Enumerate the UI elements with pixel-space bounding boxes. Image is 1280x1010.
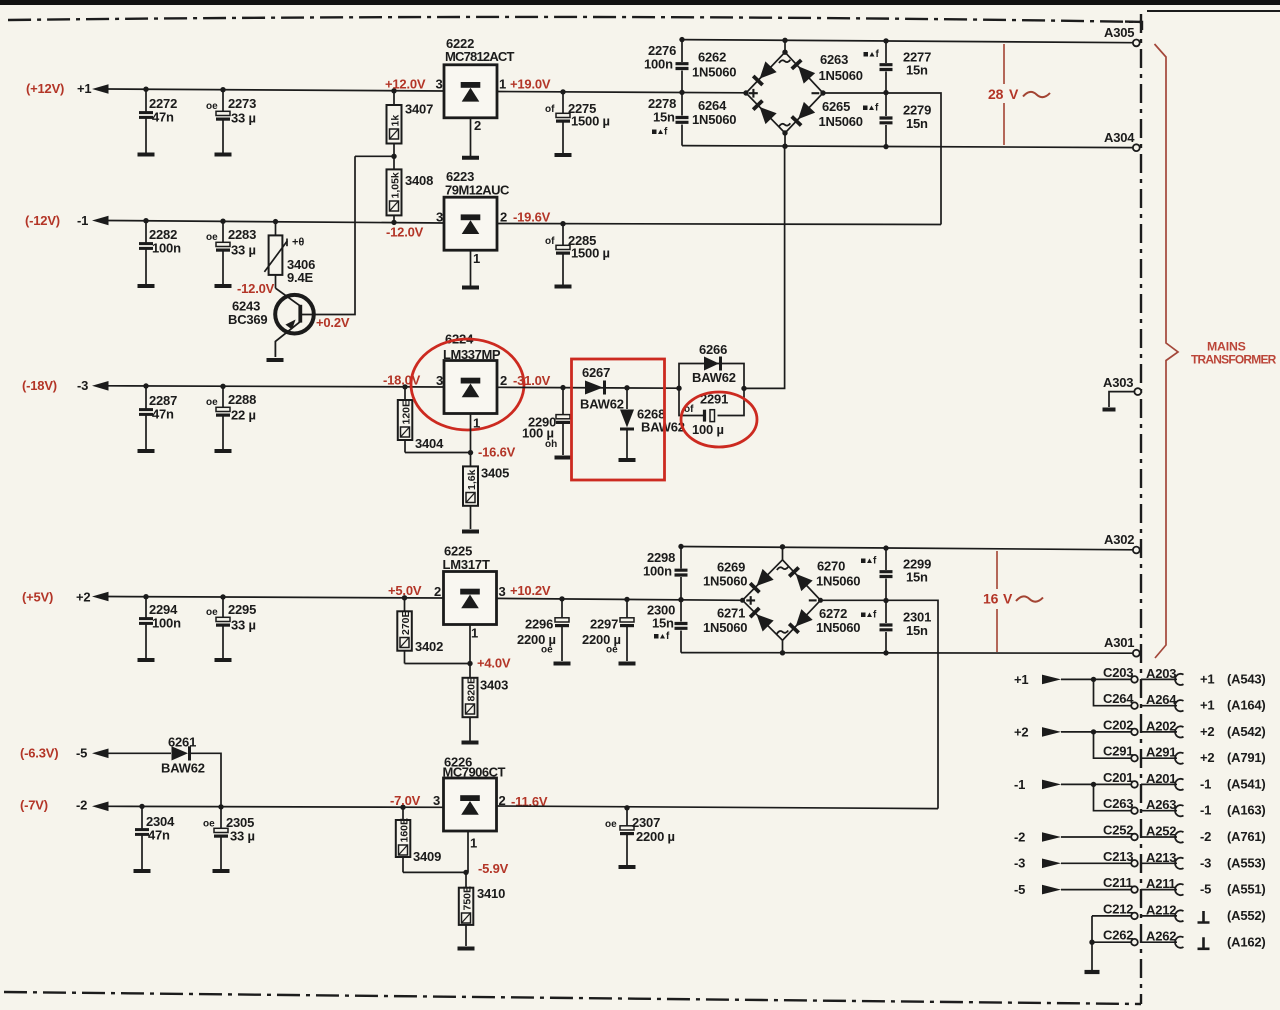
- svg-text:1k: 1k: [390, 115, 402, 127]
- svg-text:C213: C213: [1103, 849, 1133, 864]
- minus sign bridge1: [812, 92, 820, 94]
- node dot C2272: [143, 87, 148, 92]
- wire collector vertical: [301, 156, 355, 314]
- row C263/A263 -1: [1094, 784, 1266, 817]
- ground cap2307: [619, 866, 636, 868]
- svg-text:3410: 3410: [477, 886, 505, 901]
- node dot C2295: [220, 594, 225, 599]
- wire diode to corner and down: [190, 753, 222, 807]
- svg-text:C202: C202: [1103, 718, 1133, 733]
- terminal A301: [1104, 635, 1140, 657]
- svg-text:BAW62: BAW62: [580, 397, 624, 412]
- svg-text:-7.0V: -7.0V: [390, 793, 421, 808]
- node dot C2273: [220, 87, 225, 92]
- svg-text:100n: 100n: [152, 616, 181, 631]
- arrow -5: [92, 749, 109, 759]
- node dot jog/3405: [468, 450, 473, 455]
- node dot R3404 top: [402, 384, 407, 389]
- svg-text:3403: 3403: [480, 678, 508, 693]
- capacitor 2297 2200u: [582, 599, 634, 661]
- capacitor 2287 47n: [139, 386, 177, 449]
- net label (+5V): [22, 590, 53, 605]
- svg-text:820E: 820E: [466, 677, 478, 702]
- svg-text:270E: 270E: [400, 610, 412, 635]
- svg-text:1N5060: 1N5060: [816, 620, 860, 635]
- svg-text:oe: oe: [206, 101, 218, 112]
- svg-text:3404: 3404: [415, 436, 444, 451]
- node dot C2307: [624, 805, 629, 810]
- svg-text:+1: +1: [1200, 698, 1214, 713]
- svg-text:47n: 47n: [152, 407, 174, 422]
- svg-text:C201: C201: [1103, 770, 1133, 785]
- svg-text:1N5060: 1N5060: [703, 574, 747, 589]
- svg-text:1N5060: 1N5060: [692, 112, 736, 127]
- node dot C2282: [143, 218, 148, 223]
- row C211/A211 -5: [1014, 875, 1266, 897]
- resistor 3409 160E: [396, 807, 441, 872]
- svg-text:6261: 6261: [168, 735, 196, 750]
- capacitor 2275 1500u: [545, 92, 610, 153]
- row C202/A202 +2: [1014, 718, 1266, 740]
- node dot bridge1 right: [820, 90, 825, 95]
- ground cap2272: [138, 154, 155, 156]
- svg-text:-2: -2: [76, 798, 87, 813]
- svg-text:3: 3: [433, 793, 440, 808]
- capacitor 2290 100u: [522, 388, 570, 455]
- arrow +2: [92, 592, 109, 602]
- node -2: [76, 798, 87, 813]
- node dot C2285: [560, 221, 565, 226]
- svg-text:of: of: [545, 236, 555, 247]
- svg-text:(A553): (A553): [1227, 855, 1266, 870]
- svg-text:15n: 15n: [653, 110, 675, 125]
- node dot 2277/2279 mid: [883, 90, 888, 95]
- svg-text:A291: A291: [1146, 745, 1176, 760]
- svg-text:2307: 2307: [632, 815, 660, 830]
- node dot C2296: [559, 596, 564, 601]
- node dot 2277 top: [883, 38, 888, 43]
- svg-text:(A163): (A163): [1227, 803, 1266, 818]
- ground cap2275: [555, 154, 572, 156]
- red label 16 V: [983, 591, 1013, 607]
- svg-text:oh: oh: [545, 439, 557, 450]
- diode 6272 1N5060: [788, 606, 860, 635]
- node dot R3402 top: [402, 595, 407, 600]
- regulator U6223 79M12AUC: [444, 169, 510, 250]
- pin 2 reg6226: [499, 793, 506, 808]
- svg-text:6267: 6267: [582, 365, 610, 380]
- svg-text:A303: A303: [1103, 375, 1133, 390]
- ground cap2285: [555, 286, 572, 288]
- node dot bridge2 bottom: [780, 650, 785, 655]
- svg-text:1: 1: [499, 76, 506, 91]
- node dot 2299 top: [883, 545, 888, 550]
- ground cap2305: [213, 870, 230, 872]
- bottom dash-dot frame line: [4, 992, 1141, 1004]
- bridge2 top vertex lead: [782, 547, 784, 560]
- row C264/A264 +1: [1094, 679, 1266, 712]
- svg-text:C262: C262: [1103, 928, 1133, 943]
- voltage -18.0V: [383, 373, 421, 388]
- voltage -31.0V: [513, 373, 551, 388]
- svg-text:A305: A305: [1104, 25, 1134, 40]
- wire top rail A302: [681, 547, 1133, 550]
- node +2: [76, 590, 90, 605]
- voltage -5.9V: [478, 861, 509, 876]
- capacitor 2283 33u: [206, 221, 256, 284]
- svg-text:BAW62: BAW62: [161, 761, 205, 776]
- ground R3405: [462, 531, 479, 533]
- svg-text:+2: +2: [1200, 750, 1214, 765]
- wire -12V rail left: [107, 221, 444, 224]
- svg-text:-5: -5: [1014, 882, 1025, 897]
- node dot bridge1 bottom rail: [782, 144, 787, 149]
- resistor 3405 1,6k: [463, 453, 509, 529]
- svg-text:BAW62: BAW62: [692, 370, 736, 385]
- capacitor 2288 22u: [206, 386, 256, 449]
- node dot jog/3410: [463, 870, 468, 875]
- svg-text:-2: -2: [1014, 829, 1025, 844]
- ground cap2294: [138, 659, 155, 661]
- svg-text:oe: oe: [606, 645, 618, 656]
- svg-text:(A551): (A551): [1227, 882, 1266, 897]
- capacitor 2273 33u: [206, 89, 256, 153]
- ground cap2304: [134, 870, 151, 872]
- node dot C2288: [220, 384, 225, 389]
- node dot thermistor: [273, 219, 278, 224]
- node dot bridge1 left: [743, 90, 748, 95]
- svg-text:-5: -5: [76, 746, 87, 761]
- ground R3410: [458, 948, 475, 950]
- node dot C2275: [560, 89, 565, 94]
- svg-text:-3: -3: [1200, 855, 1211, 870]
- svg-text:oe: oe: [206, 232, 218, 243]
- svg-text:A304: A304: [1104, 130, 1135, 145]
- pin 1 reg6223: [473, 251, 480, 266]
- f symbol 2277: [864, 49, 880, 60]
- svg-text:C264: C264: [1103, 691, 1134, 706]
- terminal A304: [1104, 130, 1140, 151]
- svg-text:1500 µ: 1500 µ: [571, 114, 610, 129]
- wire bottom rail A301: [681, 652, 1133, 655]
- diode 6268 BAW62: [620, 388, 685, 458]
- svg-text:3402: 3402: [415, 639, 443, 654]
- svg-text:6262: 6262: [698, 50, 726, 65]
- svg-text:+θ: +θ: [292, 237, 304, 249]
- node -3: [77, 378, 88, 393]
- capacitor 2300 15n: [647, 600, 688, 653]
- arrow -3: [92, 381, 109, 391]
- ground Q6243 emitter: [267, 359, 284, 361]
- svg-text:V: V: [1009, 86, 1019, 102]
- wire pin1 6224 down to jog: [470, 414, 472, 453]
- wire jog 3409 to pin1: [403, 871, 468, 873]
- capacitor 2277 15n: [880, 41, 932, 93]
- svg-text:100n: 100n: [152, 241, 181, 256]
- svg-text:-12.0V: -12.0V: [386, 225, 424, 240]
- voltage +0.2V: [316, 315, 350, 330]
- regulator U6225 LM317T: [443, 544, 497, 625]
- node dot C2304: [139, 804, 144, 809]
- capacitor 2285 1500u: [545, 224, 610, 285]
- svg-text:2: 2: [500, 210, 507, 225]
- svg-text:1N5060: 1N5060: [703, 620, 747, 635]
- capacitor 2299 15n: [880, 548, 932, 601]
- svg-text:6269: 6269: [717, 560, 745, 575]
- svg-text:oe: oe: [605, 819, 617, 830]
- top solid border bar: [0, 0, 1280, 5]
- node dot 2298/2300 mid: [678, 597, 683, 602]
- node dot R3408 bottom: [391, 220, 396, 225]
- svg-text:3408: 3408: [405, 173, 433, 188]
- svg-text:47n: 47n: [152, 110, 174, 125]
- wire top rail A305: [682, 40, 1133, 43]
- voltage -12.0V (reg input): [386, 225, 424, 240]
- ground cap2295: [215, 659, 232, 661]
- bridge1 top vertex lead: [784, 40, 786, 52]
- node dot C2287: [143, 383, 148, 388]
- node dot 2301 bottom: [883, 650, 888, 655]
- red highlight circle U6224: [411, 339, 524, 430]
- pin 3 reg6222: [436, 76, 443, 91]
- wire +19V rail: [497, 92, 746, 93]
- svg-text:(A541): (A541): [1227, 777, 1266, 792]
- label MAINS TRANSFORMER: [1191, 340, 1277, 367]
- wire bottom rail A304: [682, 146, 1133, 148]
- wire pin1 6225 down: [469, 625, 471, 664]
- svg-text:100n: 100n: [644, 57, 673, 72]
- svg-text:+2: +2: [1200, 724, 1214, 739]
- wire A303 to ground: [1109, 392, 1134, 407]
- svg-text:C291: C291: [1103, 744, 1133, 759]
- net label (-6.3V): [20, 746, 58, 761]
- wire 2291 bottom branch: [679, 388, 744, 415]
- node dot 2276/2278 mid: [679, 90, 684, 95]
- svg-text:33 µ: 33 µ: [230, 829, 255, 844]
- capacitor 2276 100n: [644, 40, 689, 93]
- diode 6264 1N5060: [692, 98, 777, 127]
- svg-text:oe: oe: [541, 645, 553, 656]
- capacitor 2296 2200u: [517, 599, 569, 661]
- red label 28 V: [988, 86, 1019, 102]
- ground cap2290: [555, 457, 572, 459]
- wire mid rail right + corner down: [823, 93, 941, 225]
- ground A303: [1103, 408, 1116, 412]
- resistor 3408 1,05k: [387, 156, 434, 222]
- svg-text:+4.0V: +4.0V: [477, 656, 511, 671]
- AC tilde top bridge2: [777, 567, 788, 570]
- red 16V marker line: [996, 551, 998, 652]
- node -1: [77, 213, 88, 228]
- wire +5V rail left: [107, 597, 443, 599]
- svg-text:+1: +1: [1014, 672, 1028, 687]
- terminal A302: [1104, 532, 1140, 553]
- wire -6.3V rail: [107, 752, 171, 754]
- arrow -1: [92, 216, 109, 226]
- row C203/A203 +1: [1014, 665, 1266, 687]
- capacitor 2278 15n: [648, 92, 689, 145]
- wire pin1 6226 down: [467, 831, 469, 872]
- bridge2 bottom vertex lead: [782, 640, 784, 653]
- svg-text:16: 16: [983, 591, 999, 607]
- red tilde 16V: [1016, 596, 1043, 601]
- svg-text:1N5060: 1N5060: [692, 65, 736, 80]
- node dot bridge2 left: [740, 598, 745, 603]
- wire jog 3407-3408 junction: [355, 155, 394, 157]
- node dot bridge2 top: [780, 544, 785, 549]
- svg-text:1N5060: 1N5060: [819, 114, 863, 129]
- svg-text:LM317T: LM317T: [443, 557, 490, 572]
- wire to bridge1 vertical: [744, 146, 785, 388]
- svg-text:oe: oe: [203, 819, 215, 830]
- pin 3 reg6224: [436, 373, 443, 388]
- svg-text:6271: 6271: [717, 606, 745, 621]
- bridge1 diamond wires: [746, 52, 823, 133]
- svg-text:3409: 3409: [413, 849, 441, 864]
- svg-text:1: 1: [470, 836, 477, 851]
- capacitor 2305 33u: [203, 807, 255, 869]
- voltage -19.6V: [513, 210, 551, 225]
- row C291/A291 +2: [1094, 732, 1266, 765]
- regulator U6224 LM337MP: [443, 332, 501, 414]
- voltage +10.2V: [510, 583, 551, 598]
- svg-text:(-7V): (-7V): [20, 798, 48, 813]
- diode 6265 1N5060: [791, 99, 863, 129]
- AC tilde top bridge1: [779, 60, 790, 63]
- wire -19.6V rail: [497, 224, 941, 225]
- svg-text:2200 µ: 2200 µ: [636, 829, 675, 844]
- svg-text:+12.0V: +12.0V: [385, 77, 426, 92]
- ground cap2282: [138, 285, 155, 287]
- svg-text:6266: 6266: [699, 342, 727, 357]
- capacitor 2307 2200u: [605, 808, 675, 865]
- transistor Q6243 BC369: [228, 288, 314, 357]
- svg-text:(+12V): (+12V): [26, 81, 64, 96]
- diode 6263 1N5060: [791, 52, 863, 84]
- ground cap2288: [215, 450, 232, 452]
- resistor 3410 750E: [459, 872, 505, 946]
- voltage -11.6V: [511, 794, 548, 809]
- pin 1 reg6226: [470, 836, 477, 851]
- ground D6268: [619, 459, 636, 461]
- svg-text:-1: -1: [1200, 803, 1211, 818]
- svg-text:3407: 3407: [405, 102, 433, 117]
- svg-text:15n: 15n: [906, 63, 928, 78]
- pin 3 reg6225: [499, 584, 506, 599]
- row C252/A252 -2: [1014, 823, 1266, 845]
- svg-text:-1: -1: [77, 213, 88, 228]
- voltage -7.0V: [390, 793, 421, 808]
- f symbol 2300: [654, 631, 670, 642]
- node dot 6266 left: [676, 386, 681, 391]
- svg-text:MC7812ACT: MC7812ACT: [445, 49, 515, 64]
- svg-text:(-12V): (-12V): [25, 213, 60, 228]
- pin 3 reg6226: [433, 793, 440, 808]
- svg-text:(-6.3V): (-6.3V): [20, 746, 58, 761]
- svg-text:15n: 15n: [906, 570, 928, 585]
- svg-text:3: 3: [436, 76, 443, 91]
- svg-text:-5: -5: [1200, 882, 1211, 897]
- svg-text:1,05k: 1,05k: [390, 172, 402, 198]
- svg-text:2295: 2295: [228, 602, 256, 617]
- wire +10.2V rail: [497, 598, 745, 600]
- svg-text:C263: C263: [1103, 796, 1133, 811]
- svg-text:160E: 160E: [399, 818, 411, 843]
- minus sign bridge2: [809, 599, 817, 601]
- node -5: [76, 746, 87, 761]
- node dot C2283: [220, 219, 225, 224]
- net label (-18V): [22, 378, 57, 393]
- f symbol 2278: [652, 127, 668, 138]
- resistor 3403 820E: [463, 664, 509, 741]
- top dash-dot frame line: [8, 17, 1142, 22]
- svg-text:2296: 2296: [525, 617, 553, 632]
- wire jog 3404 to pin1: [405, 452, 471, 454]
- svg-text:-2: -2: [1200, 829, 1211, 844]
- svg-text:C211: C211: [1103, 875, 1133, 890]
- pin 2 reg6224: [500, 373, 507, 388]
- svg-text:6270: 6270: [817, 559, 845, 574]
- f symbol 2301: [861, 610, 877, 621]
- svg-text:-3: -3: [1014, 856, 1025, 871]
- svg-text:15n: 15n: [652, 616, 674, 631]
- pin 3 reg6223: [436, 210, 443, 225]
- node dot R3407 top: [391, 88, 396, 93]
- ground connector block: [1085, 970, 1100, 974]
- svg-text:1N5060: 1N5060: [819, 68, 863, 83]
- pin 1 reg6225: [471, 626, 478, 641]
- diode 6271 1N5060: [703, 606, 774, 636]
- node dot 2276 top: [679, 37, 684, 42]
- capacitor 2295 33u: [206, 597, 256, 658]
- wire mid rail left bridge2: [742, 599, 744, 601]
- svg-text:V: V: [1003, 591, 1013, 607]
- svg-text:2297: 2297: [590, 617, 618, 632]
- svg-text:28: 28: [988, 86, 1004, 102]
- pin 2 reg6225: [434, 584, 441, 599]
- svg-text:2: 2: [500, 373, 507, 388]
- voltage +4.0V: [477, 656, 511, 671]
- svg-text:100n: 100n: [643, 564, 672, 579]
- pin 1 reg6222: [499, 76, 506, 91]
- svg-text:120E: 120E: [401, 400, 413, 425]
- red 28V marker line: [1003, 44, 1005, 145]
- svg-text:-18.0V: -18.0V: [383, 373, 421, 388]
- plus sign bridge2: [746, 596, 755, 605]
- svg-text:6265: 6265: [822, 99, 850, 114]
- svg-text:+5.0V: +5.0V: [388, 583, 422, 598]
- svg-text:3: 3: [436, 210, 443, 225]
- voltage +5.0V: [388, 583, 422, 598]
- svg-text:C203: C203: [1103, 665, 1133, 680]
- capacitor 2298 100n: [643, 547, 688, 600]
- svg-text:2273: 2273: [228, 96, 256, 111]
- regulator U6222 MC7812ACT: [444, 36, 515, 118]
- resistor 3402 270E: [397, 598, 443, 664]
- svg-text:(A543): (A543): [1227, 672, 1266, 687]
- svg-text:LM337MP: LM337MP: [443, 347, 501, 362]
- svg-text:1: 1: [471, 626, 478, 641]
- ground cap2287: [138, 450, 155, 452]
- svg-text:6263: 6263: [820, 52, 848, 67]
- svg-text:(-18V): (-18V): [22, 378, 57, 393]
- ground lead reg6222: [462, 118, 479, 158]
- svg-text:-31.0V: -31.0V: [513, 373, 551, 388]
- node dot R3409 top: [400, 805, 405, 810]
- wire -18V rail left: [107, 386, 444, 387]
- ground R3403: [462, 742, 479, 744]
- capacitor 2291 100u (horizontal): [684, 392, 728, 438]
